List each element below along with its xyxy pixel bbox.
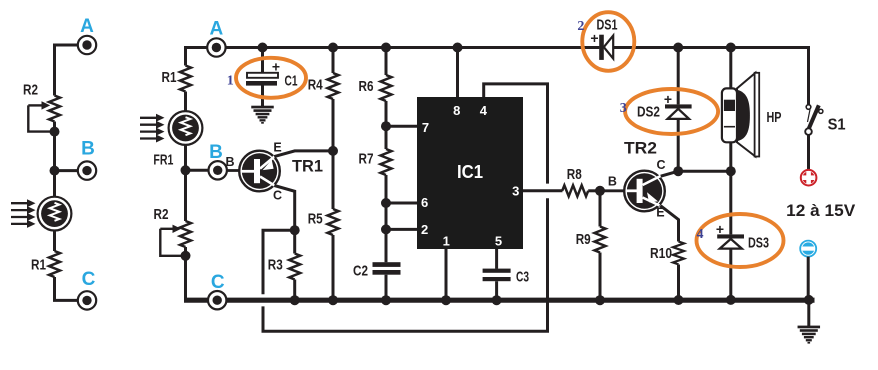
potentiometer R2 — [154, 206, 192, 256]
svg-text:+: + — [272, 59, 280, 75]
capacitor C1 — [246, 48, 298, 107]
wire R2 to photoresistor (left) — [53, 122, 56, 197]
wire R1 to FR1 — [184, 92, 187, 112]
node A — [207, 19, 225, 57]
wire HP bottom to junction — [729, 142, 732, 171]
svg-text:4: 4 — [697, 227, 704, 242]
capacitor C2 — [353, 262, 401, 298]
junction pin 7 node — [381, 121, 391, 131]
svg-text:1: 1 — [227, 74, 234, 89]
diode DS3 — [716, 221, 769, 298]
node B (left) — [78, 139, 96, 180]
svg-text:C: C — [656, 158, 665, 172]
resistor R4 — [308, 48, 339, 99]
wire R5 to bus — [332, 235, 335, 298]
svg-text:DS2: DS2 — [637, 104, 660, 121]
junction DS3 on bus — [726, 295, 736, 305]
resistor R3 — [268, 230, 300, 298]
battery positive terminal — [801, 170, 817, 186]
wire A to R2 (left) — [55, 45, 79, 96]
wire bus to ground — [807, 300, 810, 326]
wire junction to terminal B — [186, 169, 209, 172]
svg-text:R6: R6 — [359, 78, 374, 95]
wire A down to R1 — [186, 48, 208, 66]
wire collector node to HP node — [678, 170, 731, 173]
svg-text:C: C — [211, 272, 225, 293]
junction top rail at C1 — [258, 43, 268, 53]
junction top rail at HP — [726, 43, 736, 53]
capacitor C3 — [483, 268, 529, 298]
node C — [208, 272, 226, 309]
wire top rail DS1 to S1 corner — [613, 48, 808, 105]
light arrows FR1 — [140, 114, 165, 143]
junction below R2 (left) — [50, 127, 60, 137]
svg-text:E: E — [273, 140, 281, 154]
wire top rail A to DS1 — [208, 46, 600, 49]
wire R2 to ground bus — [184, 247, 187, 300]
svg-text:C1: C1 — [285, 72, 298, 89]
resistor R1 — [162, 66, 192, 92]
svg-text:A: A — [80, 16, 94, 37]
battery negative terminal — [800, 241, 816, 257]
svg-text:+: + — [664, 91, 672, 107]
svg-text:B: B — [209, 142, 223, 163]
junction R9 on bus — [595, 295, 605, 305]
wire TR1 emitter to R4/R5 node — [274, 151, 333, 157]
svg-text:R10: R10 — [650, 245, 672, 262]
junction TR2 collector — [673, 166, 683, 176]
wire to node B (left) — [55, 169, 79, 172]
svg-text:R9: R9 — [576, 231, 591, 248]
junction HP bottom — [726, 166, 736, 176]
svg-text:R8: R8 — [567, 166, 582, 183]
svg-text:DS1: DS1 — [597, 16, 618, 33]
wire terminal B to TR1 base — [226, 169, 240, 172]
wire pin 5 to C3 — [495, 249, 498, 269]
svg-text:2: 2 — [577, 19, 584, 34]
light arrows (left) — [11, 199, 36, 228]
resistor R7 — [359, 149, 392, 175]
junction top rail at R6 — [381, 43, 391, 53]
wire R1 to node C (left) — [55, 277, 79, 300]
svg-text:C: C — [82, 269, 96, 290]
wire to pin 2 — [386, 228, 418, 231]
wire R6 to R7 — [385, 101, 388, 149]
op-amp U1 : IC1 body — [417, 97, 523, 249]
resistor R8 — [562, 166, 600, 196]
resistor R1 (left) — [31, 251, 60, 277]
svg-text:HP: HP — [767, 109, 782, 126]
junction R3 on bus — [290, 295, 300, 305]
svg-text:8: 8 — [453, 103, 460, 118]
svg-text:R3: R3 — [268, 257, 283, 274]
svg-text:FR1: FR1 — [153, 152, 173, 169]
wire TR2 emitter to R10 — [661, 206, 679, 242]
junction R5 on bus — [328, 295, 338, 305]
feedback wire TR1 collector to IC1 pin 4 — [263, 84, 548, 331]
svg-text:R2: R2 — [23, 81, 38, 98]
ground bus (thick) — [184, 298, 815, 303]
orange circle 1 around C1 — [227, 58, 306, 98]
ground (bottom right) — [798, 326, 821, 344]
svg-text:R5: R5 — [308, 210, 323, 227]
wire pin 8 — [456, 48, 459, 99]
wire to pin 6 — [386, 202, 418, 205]
svg-text:B: B — [81, 139, 95, 160]
junction pin 2 node — [381, 224, 391, 234]
photoresistor (left) — [38, 197, 72, 231]
junction C2 on bus — [381, 295, 391, 305]
orange circle 3 around DS2 — [620, 89, 718, 134]
LED DS1 — [590, 16, 617, 60]
junction emitter node — [328, 146, 338, 156]
svg-text:3: 3 — [620, 101, 627, 116]
svg-text:S1: S1 — [828, 117, 846, 134]
svg-text:5: 5 — [495, 234, 502, 249]
svg-text:R2: R2 — [154, 206, 169, 223]
transistor TR2 — [608, 139, 666, 220]
resistor R10 — [650, 242, 684, 299]
transistor TR1 — [225, 140, 323, 202]
svg-text:3: 3 — [512, 183, 519, 198]
junction pin 6 node — [381, 198, 391, 208]
resistor R5 — [308, 209, 339, 235]
junction pin 1 on bus — [441, 295, 451, 305]
wire pin 3 to R8 — [523, 189, 563, 192]
wire R4 to R5 — [332, 99, 335, 209]
svg-text:TR1: TR1 — [292, 157, 323, 176]
wire TR1 collector down — [274, 186, 294, 231]
wire TR2 collector to node — [661, 171, 679, 176]
junction below R2 — [181, 251, 191, 261]
svg-text:4: 4 — [480, 103, 488, 118]
speaker HP — [722, 73, 782, 157]
wire photoresistor to R1 (left) — [53, 231, 56, 252]
switch S1 — [805, 105, 845, 135]
svg-text:R7: R7 — [359, 151, 374, 168]
svg-text:2: 2 — [421, 222, 428, 237]
svg-text:B: B — [608, 175, 617, 189]
junction R8 / R9 / TR2 base — [595, 186, 605, 196]
node C (left) — [78, 269, 96, 310]
svg-text:6: 6 — [421, 195, 428, 210]
svg-text:+: + — [716, 221, 724, 237]
wire to TR2 base — [600, 189, 625, 192]
svg-text:C2: C2 — [353, 262, 368, 279]
junction top rail at DS2 — [673, 43, 683, 53]
orange circle 4 around DS3 — [697, 214, 784, 267]
svg-text:R4: R4 — [308, 76, 324, 93]
junction ground on bus — [804, 295, 814, 305]
svg-text:B: B — [225, 155, 234, 169]
diode DS2 — [637, 91, 692, 171]
junction TR1 collector / R3 — [290, 225, 300, 235]
svg-text:DS3: DS3 — [748, 234, 769, 251]
wire pin 1 to bus — [445, 249, 448, 298]
junction node B — [181, 165, 191, 175]
wire top rail to HP — [729, 48, 732, 91]
junction C3 on bus — [492, 295, 502, 305]
svg-text:1: 1 — [443, 234, 450, 249]
wire negative terminal to bus — [807, 257, 810, 298]
ground below C1 — [251, 106, 274, 124]
svg-text:C: C — [273, 188, 282, 202]
photoresistor FR1 — [169, 111, 203, 145]
junction top rail at R4 — [328, 43, 338, 53]
orange circle 2 around DS1 — [577, 12, 634, 71]
svg-text:C3: C3 — [516, 268, 529, 285]
svg-text:7: 7 — [422, 120, 429, 135]
resistor R9 — [576, 191, 606, 298]
svg-text:R1: R1 — [31, 256, 46, 273]
svg-text:R1: R1 — [162, 69, 177, 86]
wire to pin 7 — [386, 125, 418, 128]
junction R10 on bus — [674, 295, 684, 305]
svg-text:IC1: IC1 — [457, 162, 483, 182]
svg-text:A: A — [210, 19, 224, 40]
node A (left) — [78, 16, 96, 54]
wire top rail to DS2 — [677, 48, 680, 105]
svg-text:TR2: TR2 — [624, 139, 657, 158]
wire FR1 down to R2 — [184, 145, 187, 221]
junction node B (left) — [50, 166, 60, 176]
wire junction to DS3 — [729, 171, 732, 234]
resistor R6 — [359, 48, 392, 101]
node B — [209, 142, 227, 180]
junction top rail at pin 8 — [453, 43, 463, 53]
wire S1 to battery + — [807, 135, 810, 170]
wire R7 to C2 — [385, 175, 388, 262]
svg-text:12 à 15V: 12 à 15V — [786, 201, 856, 220]
potentiometer R2 (left) — [23, 81, 60, 131]
